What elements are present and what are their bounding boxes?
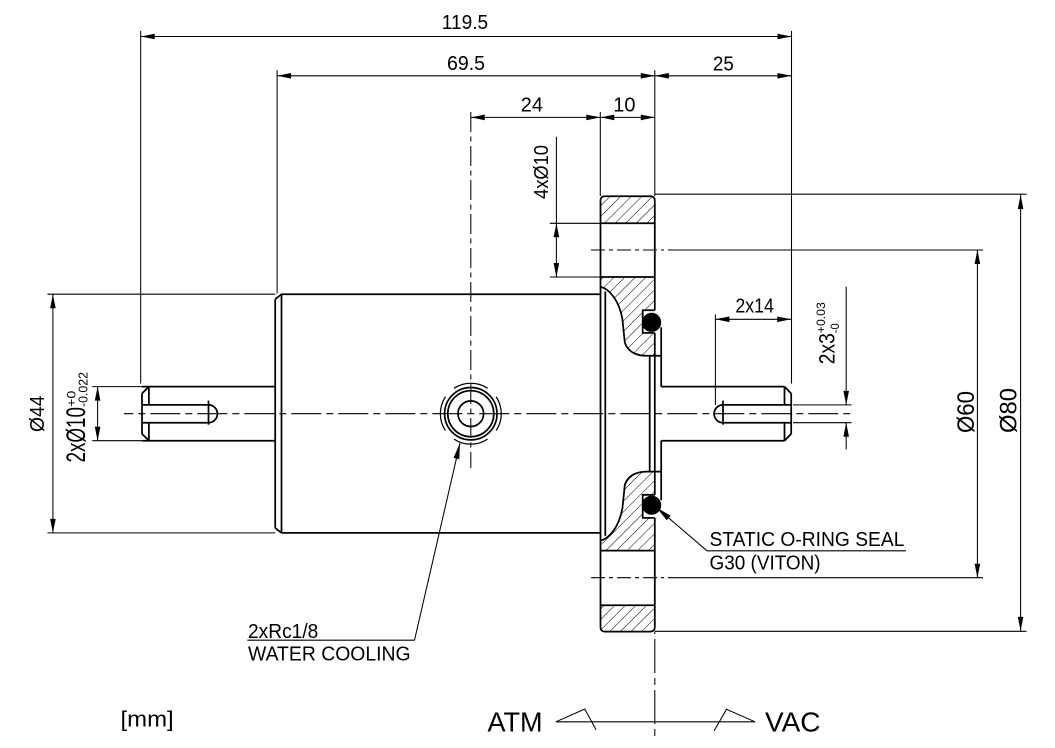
svg-text:Ø60: Ø60 bbox=[953, 391, 980, 433]
svg-text:119.5: 119.5 bbox=[442, 12, 488, 34]
svg-text:[mm]: [mm] bbox=[121, 706, 174, 731]
svg-text:G30 (VITON): G30 (VITON) bbox=[710, 553, 821, 575]
svg-text:VAC: VAC bbox=[765, 707, 821, 738]
svg-text:2x14: 2x14 bbox=[735, 295, 774, 317]
svg-text:WATER COOLING: WATER COOLING bbox=[248, 644, 411, 666]
svg-text:24: 24 bbox=[521, 95, 543, 117]
svg-text:ATM: ATM bbox=[488, 707, 543, 738]
svg-text:STATIC O-RING SEAL: STATIC O-RING SEAL bbox=[710, 529, 905, 551]
svg-text:2xRc1/8: 2xRc1/8 bbox=[248, 621, 318, 643]
svg-text:10: 10 bbox=[613, 95, 635, 117]
svg-text:4xØ10: 4xØ10 bbox=[531, 145, 553, 199]
svg-text:Ø44: Ø44 bbox=[27, 396, 49, 433]
svg-text:69.5: 69.5 bbox=[447, 53, 485, 75]
svg-text:25: 25 bbox=[713, 53, 734, 75]
svg-text:Ø80: Ø80 bbox=[996, 388, 1023, 433]
